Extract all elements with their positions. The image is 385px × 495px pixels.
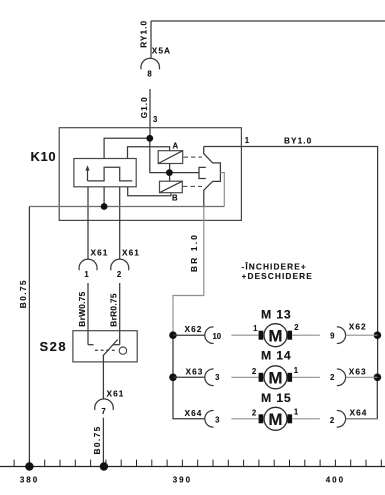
svg-text:10: 10 [212,332,221,341]
svg-text:1: 1 [253,324,258,333]
svg-text:400: 400 [326,475,345,484]
svg-text:1: 1 [84,270,89,279]
svg-text:X64: X64 [350,408,368,418]
svg-text:X63: X63 [349,367,367,377]
svg-text:S28: S28 [40,339,68,354]
svg-text:8: 8 [147,70,152,79]
svg-text:B0.75: B0.75 [18,279,28,308]
svg-text:BrR0.75: BrR0.75 [109,293,119,327]
svg-text:M 15: M 15 [261,391,292,405]
svg-text:RY1.0: RY1.0 [139,20,149,48]
svg-text:X62: X62 [185,324,203,334]
svg-text:M: M [268,326,282,345]
svg-text:3: 3 [153,115,158,124]
svg-text:M: M [268,410,282,429]
svg-text:+DESCHIDERE: +DESCHIDERE [242,271,313,281]
svg-text:390: 390 [173,475,192,484]
svg-text:G1.0: G1.0 [139,96,149,118]
svg-text:X63: X63 [186,367,204,377]
svg-text:3: 3 [215,416,220,425]
svg-text:2: 2 [330,416,335,425]
svg-text:2: 2 [294,323,299,332]
svg-text:2: 2 [252,409,257,418]
svg-text:1: 1 [294,366,299,375]
svg-text:X61: X61 [122,248,140,258]
svg-text:3: 3 [215,373,220,382]
svg-text:B0.75: B0.75 [92,425,102,454]
svg-text:X64: X64 [185,408,203,418]
svg-text:9: 9 [330,332,335,341]
svg-text:BY1.0: BY1.0 [284,136,312,146]
svg-text:7: 7 [101,407,105,416]
svg-text:X61: X61 [91,248,109,258]
svg-text:X5A: X5A [152,46,171,56]
svg-text:1: 1 [294,407,299,416]
svg-text:2: 2 [330,373,335,382]
svg-text:M 13: M 13 [261,307,292,321]
svg-text:X62: X62 [349,322,367,332]
svg-text:1: 1 [245,136,250,145]
svg-text:2: 2 [252,367,257,376]
svg-text:2: 2 [117,270,122,279]
svg-text:B: B [172,194,178,203]
svg-text:BR 1.0: BR 1.0 [189,233,199,272]
svg-text:-ÎNCHIDERE+: -ÎNCHIDERE+ [242,261,307,272]
svg-text:X61: X61 [107,389,125,399]
svg-text:380: 380 [20,475,39,484]
svg-text:A: A [173,142,179,151]
svg-text:K10: K10 [31,149,57,164]
svg-text:M: M [268,368,282,387]
svg-text:BrW0.75: BrW0.75 [77,291,87,326]
svg-text:M 14: M 14 [261,349,292,363]
